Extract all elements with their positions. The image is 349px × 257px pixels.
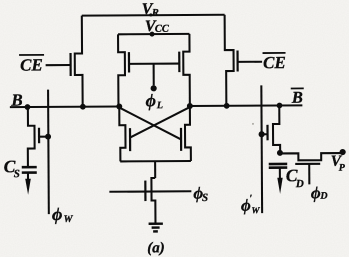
svg-text:B: B — [291, 88, 303, 107]
node: right latch drain on bit line — [187, 103, 193, 109]
svg-text:B: B — [10, 91, 22, 110]
label phi_D — [311, 183, 328, 202]
svg-text:W: W — [251, 205, 260, 215]
wire: B-bar bit line (right segment) — [190, 104, 302, 107]
gate bar of right chip-enable transistor — [236, 50, 238, 71]
transistor: right cross-coupled latch device — [185, 106, 191, 161]
svg-text:W: W — [64, 214, 74, 225]
node: right write drain on bit line — [277, 103, 283, 109]
transistor: phi_S tail device — [151, 178, 155, 224]
node: gate junction on phi'_W line — [259, 131, 265, 137]
label phi_L — [146, 90, 163, 111]
node: left latch drain on bit line — [116, 103, 122, 109]
wire: phi_L stem — [153, 64, 155, 86]
svg-text:P: P — [339, 163, 346, 174]
svg-text:L: L — [156, 100, 163, 111]
substrate arrow below C_S — [27, 173, 29, 180]
wire: common source bar of latch — [120, 160, 191, 162]
gate bar of right latch transistor — [180, 128, 182, 151]
scan speck — [252, 123, 254, 125]
overbar of right CE label — [263, 52, 286, 54]
capacitor C_S plates — [22, 167, 37, 172]
label V_CC — [145, 18, 170, 35]
gate bar of phi_D transistor — [295, 163, 320, 165]
wire: cross-coupling diagonal from right drain to left gate — [130, 107, 190, 137]
svg-text:CC: CC — [155, 24, 170, 35]
wire: left write gate lead to phi_W line — [39, 136, 48, 138]
svg-text:D: D — [295, 178, 304, 190]
svg-text:′: ′ — [249, 193, 252, 204]
svg-text:(a): (a) — [147, 240, 165, 256]
node: left CE source on bit line — [80, 104, 86, 110]
label phi'_W — [241, 193, 261, 215]
wire: B bit line (left segment) — [10, 105, 119, 108]
node: phi_L terminal dot — [151, 85, 157, 91]
label CE-bar (left) — [20, 55, 43, 74]
gate bar of left load transistor — [128, 52, 130, 72]
transistor: right load device of latch — [183, 34, 190, 106]
gate bar of left chip-enable transistor — [69, 53, 71, 76]
transistor: right chip-enable device (channel+leads) — [225, 15, 234, 106]
overbar of B-bar label — [291, 87, 304, 89]
node: B terminal dot — [25, 104, 31, 110]
caption (a) — [147, 240, 165, 256]
svg-text:ϕ: ϕ — [52, 204, 63, 224]
wire: cross-coupling diagonal from left drain to right gate — [119, 107, 181, 140]
capacitor C_D plates — [269, 164, 288, 168]
label V_R — [142, 1, 159, 19]
overbar of left CE label — [19, 54, 44, 56]
label C_D — [286, 165, 304, 190]
node nub under V_R label on rail — [149, 13, 152, 16]
node: gate junction on phi_W line — [45, 134, 51, 140]
transistor: left load device of latch — [118, 34, 125, 106]
transistor: phi_D precharge device (horizontal) — [280, 153, 341, 160]
label B-bar (right bit line) — [291, 88, 303, 107]
wire: right write gate lead to phi'_W line — [262, 133, 268, 135]
substrate arrow below C_D — [279, 168, 281, 178]
ground symbol — [149, 224, 163, 232]
wire: phi'_W word line (right column) — [260, 85, 263, 213]
wire: load gates link line — [129, 63, 179, 65]
gate bar of left write transistor — [38, 128, 40, 143]
wire: phi_W word line (left column) — [47, 90, 50, 214]
label phi_S — [193, 183, 208, 204]
svg-text:CE: CE — [20, 55, 43, 74]
svg-text:CE: CE — [263, 53, 286, 72]
wire: V_R top rail — [82, 14, 225, 17]
gate bar of right write transistor — [266, 125, 268, 140]
gate bar of right load transistor — [178, 52, 180, 72]
node: right CE source on bit line — [224, 103, 230, 109]
transistor: left chip-enable device (channel+leads) — [75, 16, 83, 107]
wire: phi_S gate line — [109, 190, 191, 193]
svg-text:S: S — [202, 192, 208, 204]
svg-text:S: S — [14, 168, 20, 180]
wire: gate lead to right CE-bar label — [238, 61, 262, 63]
gate bar of left latch transistor — [129, 128, 131, 151]
svg-text:D: D — [319, 191, 327, 202]
wire: phi_D gate lead — [308, 164, 310, 184]
label C_S — [4, 156, 20, 180]
node: C_D junction dot — [277, 150, 283, 156]
node: V_P terminal dot — [340, 149, 346, 155]
label CE-bar (right) — [263, 53, 286, 72]
wire: V_CC inner rail — [118, 33, 189, 35]
label B (left bit line) — [10, 91, 22, 110]
label V_P — [331, 153, 346, 174]
gate bar of phi_S transistor — [144, 181, 146, 201]
wire: latch tail down to phi_S transistor — [154, 161, 156, 178]
transistor: left cross-coupled latch device — [119, 106, 125, 161]
transistor: left write/storage access device — [28, 107, 35, 167]
node: V_CC rail junction dot — [150, 32, 155, 37]
svg-text:ϕ: ϕ — [146, 90, 157, 110]
transistor: right write/dummy access device — [273, 105, 280, 151]
label phi_W — [52, 204, 74, 225]
wire: gate lead to left CE-bar label — [46, 64, 71, 66]
